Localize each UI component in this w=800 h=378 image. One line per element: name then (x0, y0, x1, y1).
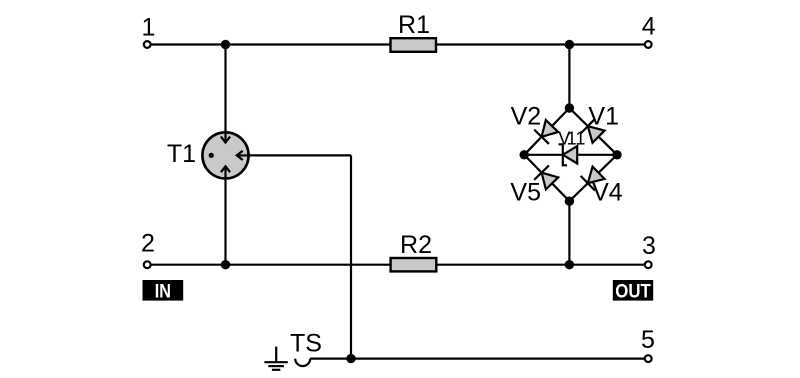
zener diode V11 (558, 128, 585, 165)
junction top-left (221, 40, 230, 49)
svg-text:T1: T1 (167, 140, 196, 168)
label V1 (588, 102, 619, 130)
svg-text:V4: V4 (592, 179, 623, 207)
svg-text:V11: V11 (558, 128, 585, 148)
wire top rail from terminal 1 to terminal 4 (151, 43, 645, 45)
junction TS rail (346, 354, 355, 363)
diode V4 (581, 165, 606, 190)
wire vertical from top rail down to T1 top (224, 45, 226, 134)
junction bottom-left (221, 260, 230, 269)
resistor R1 (391, 11, 437, 52)
svg-text:V2: V2 (511, 102, 542, 130)
wire vertical from T1 bottom to bottom rail (224, 178, 226, 265)
node bridge left (520, 150, 529, 159)
svg-text:2: 2 (141, 230, 155, 258)
terminal 5 (641, 326, 655, 362)
ground TS (264, 347, 287, 370)
svg-text:R2: R2 (400, 231, 432, 259)
wire TS rail to terminal 5 (310, 358, 644, 360)
svg-text:V1: V1 (588, 102, 619, 130)
svg-text:3: 3 (642, 232, 656, 260)
terminal 4 (642, 12, 656, 47)
junction top-right (565, 40, 574, 49)
terminal 3 (642, 232, 656, 268)
label V2 (511, 102, 542, 130)
resistor R2 (391, 231, 437, 272)
IN tag (143, 280, 184, 302)
wire vertical from T1 branch down to TS rail (350, 155, 352, 358)
svg-text:5: 5 (641, 326, 655, 354)
node bridge bottom (565, 197, 574, 206)
svg-text:4: 4 (642, 12, 656, 40)
terminal 2 (141, 230, 155, 269)
diode V1 (581, 119, 606, 144)
node bridge right (612, 150, 621, 159)
wire bridge bottom vertical (568, 201, 570, 265)
diode V2 (534, 119, 559, 144)
svg-text:V5: V5 (510, 179, 541, 207)
svg-text:TS: TS (290, 329, 322, 357)
wire from T1 right side horizontal (248, 154, 351, 156)
svg-text:R1: R1 (398, 11, 430, 39)
svg-text:OUT: OUT (615, 281, 651, 302)
svg-text:1: 1 (142, 14, 156, 42)
label V5 (510, 179, 541, 207)
TS disconnect hook (290, 329, 322, 366)
svg-text:IN: IN (155, 281, 171, 302)
wire bridge top vertical (568, 45, 570, 109)
wire bottom rail from terminal 2 to terminal 3 (151, 264, 645, 266)
node bridge top (565, 103, 574, 112)
OUT tag (613, 280, 653, 302)
transformer T1 (167, 132, 249, 178)
label V4 (592, 179, 623, 207)
diode V5 (534, 165, 559, 190)
diamond bridge edges (524, 108, 617, 201)
terminal 1 (142, 14, 156, 48)
junction bottom-right (565, 260, 574, 269)
